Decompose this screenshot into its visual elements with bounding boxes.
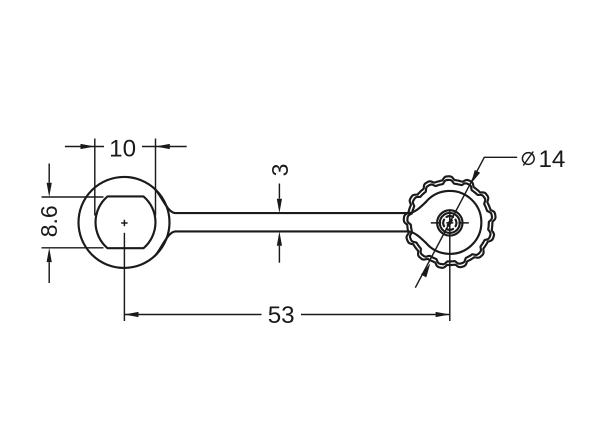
cap inner scalloped line — [407, 180, 492, 264]
dia14 symbol — [523, 152, 533, 166]
dim 53 left arrow — [124, 312, 138, 317]
dim 8.6 bottom extension — [42, 247, 104, 249]
dim 10 left arrow — [81, 144, 95, 149]
svg-text:14: 14 — [538, 146, 565, 173]
cap center ring middle — [440, 213, 460, 233]
dim 3 top arrow — [277, 199, 282, 213]
dim 3 line — [278, 184, 280, 263]
cap center cross — [431, 217, 469, 228]
dim 10 left extension — [94, 139, 96, 216]
dim 3 bottom arrow — [277, 231, 282, 245]
dia14 upper arrow — [471, 170, 480, 184]
left eyelet outer circle — [79, 177, 170, 268]
dim 10 line — [65, 146, 187, 148]
cap top blend curve — [409, 202, 426, 213]
cap inner circle arc — [426, 191, 482, 254]
strap top fillet — [155, 189, 176, 213]
hex socket — [96, 196, 156, 248]
cap center ring outer — [437, 210, 462, 235]
strap bottom edge — [176, 230, 410, 232]
dim 53 right extension — [449, 210, 451, 321]
cap center ring inner arcs — [443, 216, 456, 230]
dim 8.6 top extension — [42, 196, 104, 198]
dia14 leader diagonal — [415, 157, 517, 287]
cap bottom blend curve — [409, 232, 426, 243]
dim 53 left extension — [123, 233, 125, 321]
strap top edge — [176, 212, 409, 214]
dim 10 right arrow — [156, 144, 170, 149]
svg-text:53: 53 — [268, 302, 295, 329]
dim 8.6 line — [48, 164, 50, 284]
dim 8.6 bottom arrow — [47, 248, 52, 262]
center mark + — [121, 220, 127, 226]
cap outer scalloped outline — [404, 176, 496, 267]
dim 10 right extension — [155, 139, 157, 216]
svg-text:3: 3 — [267, 164, 293, 177]
strap bottom fillet — [155, 231, 176, 255]
dim 8.6 top arrow — [47, 183, 52, 197]
dim 53 right arrow — [436, 312, 450, 317]
dim 53 line — [124, 314, 450, 316]
svg-text:8.6: 8.6 — [36, 205, 62, 237]
dia14 lower arrow — [421, 263, 430, 277]
svg-text:10: 10 — [109, 135, 136, 162]
leader center dash — [448, 219, 452, 226]
